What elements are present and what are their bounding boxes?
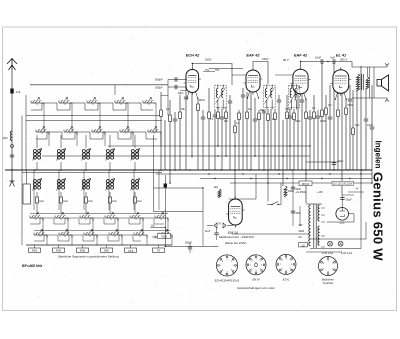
svg-text:AZ 41: AZ 41: [282, 279, 290, 282]
tube ECH42 V1: [186, 70, 199, 93]
wire sw6d down: [171, 235, 173, 245]
wire: [217, 107, 219, 112]
socket view ECH42/EAF42/EL41: [216, 255, 237, 276]
capacitor at 203: [201, 116, 205, 118]
wire band box MW: [106, 245, 108, 248]
wire rowD link: [34, 230, 170, 232]
wire hor 227: [151, 227, 166, 229]
wire sw5c down: [142, 218, 144, 235]
resistor at 180: [179, 112, 182, 119]
resistor at 314: [313, 112, 316, 119]
wire: [352, 90, 354, 128]
wire plate2 top: [253, 62, 268, 85]
svg-text:1kΩ: 1kΩ: [63, 201, 67, 203]
resistor at 338: [337, 110, 340, 117]
pilot lamp 1: [328, 241, 333, 246]
switch S6d: [159, 234, 172, 236]
wire coil2 up: [36, 135, 38, 148]
resistor at 239: [238, 113, 241, 120]
svg-text:Werte bei 220V~: Werte bei 220V~: [225, 241, 248, 245]
junction: [250, 178, 251, 179]
IF transformer T3: [289, 86, 300, 108]
junction: [291, 169, 293, 171]
svg-text:1kΩ: 1kΩ: [112, 201, 116, 203]
capacitor at 318: [316, 115, 320, 117]
capacitor at 372: [370, 126, 374, 128]
capacitor 5nF coupling: [332, 59, 334, 63]
wire sw1c up: [33, 170, 35, 210]
coil L2 antenna circuit: [33, 150, 36, 153]
band box KW1: [29, 248, 41, 252]
wire sw2a down: [71, 106, 73, 132]
svg-text:1kΩ: 1kΩ: [355, 124, 360, 127]
coil L1 antenna: [10, 131, 12, 141]
wire band box Lang: [130, 245, 132, 248]
wire sw5a down: [155, 106, 157, 132]
svg-text:750Ω: 750Ω: [161, 236, 167, 239]
svg-text:200pF: 200pF: [155, 85, 163, 89]
wire sw1d down: [46, 235, 48, 245]
junction tube1 caps: [185, 79, 186, 80]
capacitor block 165: [164, 184, 167, 188]
tube EAF42 V3: [293, 69, 308, 94]
wire: [254, 98, 256, 119]
wire sw4d down: [121, 235, 123, 245]
wire pt top: [306, 203, 322, 205]
IF transformer T2: [264, 86, 276, 108]
wire: [309, 110, 311, 117]
wire: [258, 110, 260, 113]
switch S5d: [134, 234, 147, 236]
wire speaker left2: [373, 67, 375, 98]
junction: [319, 169, 321, 171]
wire phono r: [227, 225, 233, 227]
junction: [267, 182, 269, 184]
svg-text:500pF: 500pF: [185, 242, 193, 245]
tube EM34: [229, 199, 243, 225]
wire main ground bus: [5, 169, 372, 171]
wire: [345, 98, 347, 108]
junction: [169, 182, 171, 184]
wire: [286, 95, 288, 112]
resistor at 322: [321, 110, 324, 117]
capacitor 500pF em: [188, 246, 192, 248]
capacitor at 215: [213, 114, 217, 116]
wire sw5d down: [146, 235, 148, 245]
wire: [267, 109, 269, 114]
wire ground bus second: [22, 172, 162, 174]
capacitor at 279: [277, 99, 281, 101]
wire coil6 down: [134, 162, 136, 170]
svg-text:6,3V 0,3A: 6,3V 0,3A: [322, 252, 333, 255]
wire coil7 down: [36, 192, 38, 197]
wire bus2: [156, 173, 372, 175]
wire padder2 tail: [60, 203, 62, 214]
wire coil11 down: [134, 192, 136, 197]
wire: [238, 110, 240, 113]
svg-text:50pF: 50pF: [295, 120, 301, 123]
capacitor antenna lower: [10, 154, 14, 156]
resistor 450 ohm: [284, 186, 287, 197]
junction fb: [165, 227, 166, 228]
wire coil6 up: [134, 135, 136, 148]
wire plate1 top: [192, 64, 232, 86]
band box TA: [153, 248, 165, 252]
resistor at 170: [169, 115, 172, 122]
wire sw4b down: [132, 132, 134, 146]
svg-text:1M: 1M: [248, 108, 251, 111]
wire em34 r: [255, 174, 257, 199]
svg-text:50µF: 50µF: [338, 160, 344, 163]
wire pt taps: [321, 207, 325, 209]
wire coil3 down: [60, 162, 62, 170]
svg-text:Ingelen: Ingelen: [374, 141, 383, 169]
wire coil4 up: [85, 135, 87, 148]
switch S5b: [148, 131, 161, 133]
power transformer core: [313, 204, 315, 248]
wire bank drop: [114, 85, 116, 95]
speaker terminal bottom: [385, 98, 389, 102]
svg-text:Meßinstrument - 1000 Ω/V: Meßinstrument - 1000 Ω/V: [219, 235, 255, 239]
junction: [347, 169, 349, 171]
junction: [360, 173, 361, 174]
junction: [277, 169, 279, 171]
speaker terminal top: [385, 63, 389, 67]
wire sw2b down: [76, 132, 78, 146]
svg-text:~2x 450Ω: ~2x 450Ω: [295, 191, 306, 194]
wire: [229, 95, 231, 101]
svg-text:95 V: 95 V: [283, 58, 289, 62]
tube pin wires: [335, 92, 338, 100]
wire grid2 link: [209, 68, 243, 70]
wire: [169, 100, 171, 115]
resistor at 259: [258, 113, 261, 120]
wire: [234, 120, 236, 126]
capacitor 1nF antenna: [10, 89, 13, 94]
tube pin wires: [187, 91, 190, 99]
svg-text:EAF 42: EAF 42: [246, 52, 260, 57]
capacitor at 175: [173, 118, 177, 120]
junction: [11, 169, 13, 171]
junction: [214, 178, 215, 179]
wire sw5c up: [133, 170, 135, 210]
wire cap upper: [168, 79, 186, 81]
wire: [297, 92, 299, 170]
wire sw1a down: [43, 106, 45, 132]
wire speaker bottom: [352, 97, 387, 99]
wire az41 right: [327, 214, 354, 222]
svg-text:Genius 650 W: Genius 650 W: [371, 172, 386, 261]
wire link 71: [203, 71, 215, 73]
wire vert 165: [164, 175, 166, 246]
IF transformer T1: [215, 86, 227, 108]
wire bank right edge: [153, 135, 155, 188]
capacitor 11nF: [214, 232, 218, 234]
wire sw4a down: [127, 106, 129, 132]
wire cap join: [167, 80, 169, 116]
wire: [371, 85, 373, 127]
junction: [34, 169, 36, 171]
terminal circle antenna: [11, 145, 14, 148]
coil L8 oscillator: [57, 180, 60, 183]
capacitor 50nF a: [291, 186, 295, 188]
svg-text:50µF: 50µF: [346, 199, 352, 202]
switch S1c: [30, 217, 43, 219]
socket view EM34: [246, 255, 266, 275]
switch S2b: [64, 131, 77, 133]
svg-text:5nF: 5nF: [331, 56, 336, 60]
wire coil8 down: [60, 192, 62, 197]
svg-text:Ansichten: Ansichten: [322, 282, 334, 285]
switch S1b: [36, 131, 49, 133]
ground chassis left: [10, 170, 15, 187]
svg-text:200Ω: 200Ω: [299, 231, 305, 233]
wire link 90: [180, 90, 186, 92]
svg-text:450Ω: 450Ω: [288, 190, 294, 193]
svg-text:11nF: 11nF: [205, 230, 211, 233]
wire padder4 tail: [109, 203, 111, 214]
switch S2c: [55, 217, 68, 219]
resistor at 247: [246, 112, 249, 119]
wire: [225, 107, 227, 112]
junction: [234, 169, 236, 171]
junction: [349, 178, 350, 179]
junction: [249, 169, 251, 171]
svg-text:465,5V: 465,5V: [302, 183, 310, 186]
power transformer primary: [309, 205, 311, 246]
junction: [329, 173, 330, 174]
junction: [361, 169, 363, 171]
wire: [360, 66, 362, 199]
svg-text:KW1: KW1: [32, 250, 38, 253]
label 465V: [299, 181, 312, 186]
svg-text:205 V: 205 V: [340, 58, 347, 62]
switch S1a: [31, 102, 44, 104]
wire 4V: [348, 191, 364, 193]
resistor at 209: [208, 112, 211, 119]
tube EL41 V4: [333, 70, 349, 94]
svg-text:ECH42,EAF42,EL41: ECH42,EAF42,EL41: [215, 278, 240, 282]
capacitor at 255: [253, 118, 257, 120]
wire band box KW2: [58, 245, 60, 248]
resistor at 218: [217, 112, 220, 119]
wire az41 top: [341, 195, 343, 208]
wire speaker left1: [369, 67, 371, 98]
capacitor at 330: [328, 116, 332, 118]
wire: [301, 94, 303, 101]
wire bus3: [200, 178, 372, 180]
wire: [221, 109, 223, 117]
resistor R1 padder: [36, 197, 39, 203]
junction: [205, 169, 207, 171]
wire sw5b down: [160, 132, 162, 146]
wire coil2 down: [36, 162, 38, 170]
junction: [109, 169, 111, 171]
svg-text:EM 34: EM 34: [253, 279, 261, 282]
wire bank bus2: [26, 120, 162, 122]
wire coil9 down: [85, 192, 87, 197]
capacitor at 310: [308, 116, 312, 118]
capacitor at 230: [228, 100, 232, 102]
wire: [185, 80, 187, 98]
power transformer secondary LT: [318, 226, 320, 245]
svg-text:EAF 42: EAF 42: [294, 52, 308, 57]
wire bottom bus: [26, 244, 172, 246]
rectifier AZ41: [336, 208, 349, 221]
junction: [309, 145, 311, 147]
wire sw2c up: [58, 170, 60, 210]
wire sw3c down: [92, 218, 94, 235]
wire sw2c down: [67, 218, 69, 235]
wire: [329, 85, 331, 117]
wire: [349, 85, 351, 99]
wire sw3b down: [104, 132, 106, 146]
junction: [217, 155, 219, 157]
band box KW3: [77, 248, 89, 252]
wire az hor: [342, 194, 354, 196]
wire: [282, 120, 284, 186]
capacitor at 264: [262, 110, 266, 112]
svg-text:6,3V 0,1A: 6,3V 0,1A: [341, 252, 352, 255]
wire: [341, 94, 343, 196]
resistor 750 box: [158, 234, 171, 239]
tube EAF42 V2: [246, 70, 260, 92]
switch mains: [267, 202, 281, 205]
resistor R5 padder: [134, 197, 137, 203]
wire link 95: [161, 95, 168, 97]
coil L9 oscillator: [82, 180, 85, 183]
output transformer core: [361, 74, 363, 90]
wire: [160, 92, 162, 110]
svg-text:Sockelschaltungen von unten: Sockelschaltungen von unten: [237, 286, 275, 290]
resistor at 235: [234, 126, 237, 133]
wire: [325, 95, 327, 108]
switch S4b: [120, 131, 133, 133]
junction: [208, 173, 209, 174]
terminal box TA left: [23, 184, 31, 204]
junction: [85, 169, 87, 171]
wire: [333, 63, 335, 170]
resistor at 294: [293, 113, 296, 120]
wire padder1 tail: [36, 203, 38, 214]
svg-text:10µF: 10µF: [367, 124, 373, 127]
arrow input: [152, 236, 157, 239]
wire meander rowA: [31, 103, 153, 110]
junction: [220, 169, 222, 171]
svg-text:185V: 185V: [205, 58, 212, 62]
wire right v2: [365, 222, 367, 239]
wire sw4c down: [117, 218, 119, 235]
junction: [305, 169, 307, 171]
wire sw6c down: [167, 218, 169, 235]
wire: [293, 109, 295, 113]
svg-text:1kΩ: 1kΩ: [137, 201, 141, 203]
wire sw1c down: [42, 218, 44, 235]
wire: [305, 98, 307, 112]
junction: [289, 145, 291, 147]
resistor at 161: [160, 110, 163, 117]
wire feedback loop: [154, 188, 204, 212]
junction: [278, 173, 279, 174]
wire agc bus2: [108, 145, 310, 147]
capacitor 50uF a: [332, 162, 336, 164]
wire link 75b: [275, 74, 293, 76]
wire: [313, 95, 315, 112]
resistor at 326: [325, 108, 328, 115]
power transformer secondary HT: [318, 205, 320, 221]
wire coil4 down: [85, 162, 87, 170]
svg-text:KW2: KW2: [56, 250, 62, 253]
wire bank top: [30, 84, 168, 86]
wire meander rowC: [30, 218, 164, 224]
wire em bottom: [232, 233, 310, 235]
svg-text:1nF: 1nF: [16, 90, 21, 94]
wire band box KW3: [82, 245, 84, 248]
svg-text:TA: TA: [157, 250, 160, 253]
wire: [321, 63, 323, 110]
svg-text:2Ω: 2Ω: [299, 237, 302, 239]
capacitor at 290: [288, 115, 292, 117]
wire: [179, 95, 181, 112]
wire: [214, 109, 216, 115]
switch S5c: [130, 217, 143, 219]
output transformer primary: [356, 74, 359, 91]
capacitor at 222: [220, 116, 224, 118]
svg-text:48V: 48V: [299, 225, 304, 227]
svg-text:25n: 25n: [151, 224, 156, 227]
wire heater line: [306, 161, 338, 163]
svg-text:500pF: 500pF: [155, 78, 163, 82]
svg-text:1M: 1M: [328, 104, 331, 107]
svg-text:110,125,150,220V: 110,125,150,220V: [333, 183, 353, 186]
svg-text:0,5M: 0,5M: [285, 108, 290, 111]
resistor at 306: [305, 112, 308, 119]
switch S3d: [84, 234, 97, 236]
tube pin wires: [295, 92, 298, 100]
svg-text:300Ω: 300Ω: [320, 120, 326, 123]
junction: [242, 173, 243, 174]
wire meander rowD: [34, 235, 141, 241]
capacitor at 243: [241, 94, 245, 96]
capacitor 10nF coupling: [320, 59, 322, 63]
svg-text:25nF: 25nF: [296, 212, 302, 215]
wire lamps bus1: [310, 238, 366, 240]
svg-text:20kΩ: 20kΩ: [199, 99, 205, 102]
svg-text:TA: TA: [218, 222, 221, 225]
wire coil3 up: [60, 135, 62, 148]
pilot lamp 2: [338, 241, 343, 246]
wire: [365, 88, 367, 119]
switch S4d: [109, 234, 122, 236]
resistor R3 padder: [85, 197, 88, 203]
wire: [270, 109, 272, 170]
wire output top: [352, 62, 387, 68]
svg-text:10nF: 10nF: [315, 56, 321, 60]
wire bus4: [230, 182, 372, 184]
wire screen3 top: [301, 62, 353, 67]
wire right v1: [360, 199, 362, 249]
wire sw3a down: [99, 106, 101, 132]
resistor at 287: [286, 112, 289, 119]
wire padder5 tail: [134, 203, 136, 214]
resistor at 268: [267, 114, 270, 121]
junction: [234, 145, 236, 147]
svg-text:50pF: 50pF: [178, 92, 184, 95]
wire coil5 up: [109, 135, 111, 148]
resistor R em34: [218, 189, 221, 198]
wire sw3c up: [83, 170, 85, 210]
resistor at 346: [345, 108, 348, 115]
